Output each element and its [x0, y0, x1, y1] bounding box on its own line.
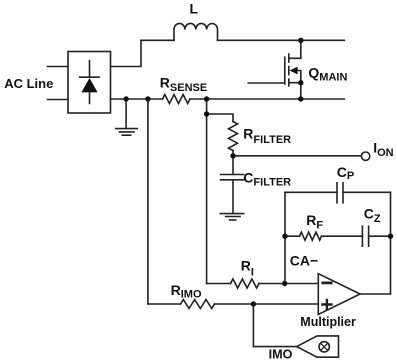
resistor RF — [300, 232, 322, 240]
resistor RFILTER — [229, 122, 238, 151]
source stub — [289, 83, 301, 99]
multiplier M1 — [297, 336, 339, 357]
resistor RI — [231, 279, 260, 288]
wire RFILTER tap — [207, 114, 233, 122]
bridge diode D1 — [80, 61, 99, 104]
wire ground drop under bridge — [125, 99, 127, 128]
svg-text:CP: CP — [337, 164, 354, 182]
svg-text:RSENSE: RSENSE — [160, 75, 207, 94]
svg-text:CZ: CZ — [364, 206, 381, 225]
svg-text:QMAIN: QMAIN — [308, 65, 347, 84]
capacitor CFILTER — [221, 175, 244, 180]
svg-text:AC Line: AC Line — [4, 76, 53, 91]
wire AC line input bottom — [48, 99, 69, 101]
wire top rail right — [218, 39, 345, 41]
op-amp U1 — [318, 274, 360, 315]
svg-text:RIMO: RIMO — [171, 282, 202, 301]
node source-rail — [298, 96, 303, 101]
wire node to CFILTER — [232, 156, 234, 175]
svg-text:CA−: CA− — [290, 252, 318, 268]
capacitor CZ — [362, 226, 368, 246]
wire op-amp output — [360, 293, 390, 295]
wire top rail left — [141, 39, 174, 41]
node RFILTER tap — [204, 111, 209, 116]
terminal ION — [361, 152, 369, 160]
ground under CFILTER — [220, 214, 243, 220]
node bridge-ground — [123, 96, 128, 101]
wire bridge top output to riser — [111, 40, 142, 66]
node RFILTER bottom — [230, 153, 235, 158]
wire long vertical from RSENSE to RI — [206, 99, 208, 284]
gate lead — [248, 82, 285, 84]
node drain — [298, 38, 303, 43]
wire CFILTER to ground — [232, 180, 234, 213]
svg-text:Multiplier: Multiplier — [300, 315, 356, 329]
svg-text:RI: RI — [241, 258, 254, 279]
capacitor CP — [337, 183, 343, 203]
drain stub — [289, 40, 301, 58]
channel segments — [288, 54, 290, 86]
node RF left — [282, 234, 287, 239]
wire feedback top line — [285, 191, 391, 193]
wire plus node down to multiplier — [253, 304, 296, 347]
svg-text:ION: ION — [373, 139, 393, 159]
wire RFILTER bottom to node — [232, 151, 234, 156]
node source-body — [298, 80, 303, 85]
bridge rectifier box — [68, 52, 111, 114]
node CZ right — [388, 234, 393, 239]
inductor L — [174, 23, 217, 40]
resistor RIMO — [181, 300, 215, 309]
wire RF-CZ middle line — [285, 235, 391, 237]
wire RI line — [207, 283, 319, 285]
svg-text:IMO: IMO — [269, 348, 293, 362]
svg-text:CFILTER: CFILTER — [243, 170, 291, 189]
node CA- — [282, 281, 287, 286]
svg-text:L: L — [190, 1, 199, 17]
wire ION line — [233, 155, 361, 157]
gate bar — [284, 57, 286, 84]
node rail-RIMO vertical — [145, 96, 150, 101]
node RSENSE right — [204, 96, 209, 101]
wire feedback right vertical — [390, 192, 392, 293]
wire vertical from bottom rail to RIMO — [147, 99, 149, 304]
transistor QMAIN — [248, 40, 301, 99]
svg-text:RF: RF — [306, 212, 323, 231]
svg-text:RFILTER: RFILTER — [243, 126, 291, 146]
wire RIMO line — [148, 303, 318, 305]
resistor RSENSE — [163, 95, 191, 104]
node RIMO-plus — [251, 301, 256, 306]
wire AC line input top — [48, 66, 69, 68]
wire feedback left vertical — [284, 192, 286, 283]
wire bottom rail — [111, 98, 345, 100]
body arrow — [296, 71, 301, 83]
ground under bridge — [116, 129, 138, 136]
